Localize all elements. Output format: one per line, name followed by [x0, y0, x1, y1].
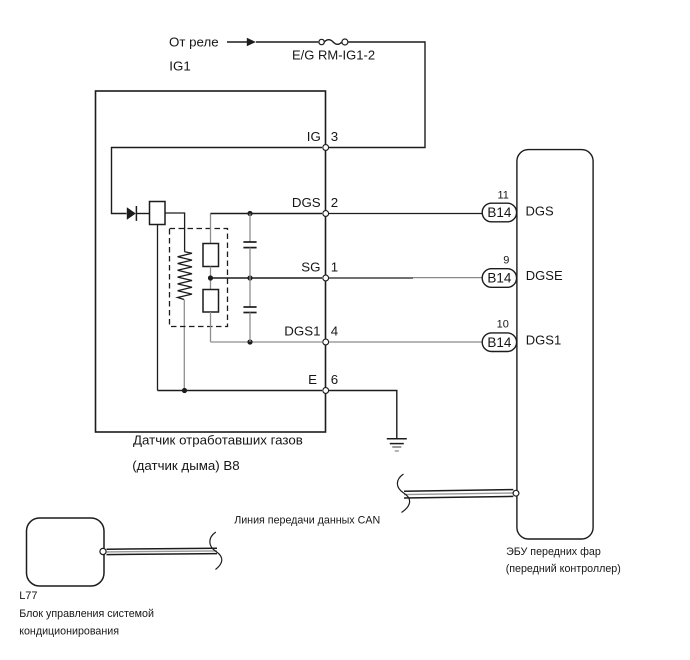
resistor R2 (box) [203, 290, 219, 313]
junction dot [182, 388, 187, 393]
resistor (zigzag) [178, 252, 192, 300]
svg-text:B14: B14 [487, 205, 512, 220]
wire fuse to IG pin [329, 42, 425, 148]
svg-text:Линия передачи данных CAN: Линия передачи данных CAN [234, 514, 380, 526]
ground [387, 439, 407, 451]
svg-text:(передний контроллер): (передний контроллер) [506, 563, 621, 575]
pin SG [323, 275, 329, 281]
capacitor C1 [243, 242, 256, 248]
junction dot DGS/cap [247, 211, 252, 216]
pin DGS [323, 211, 329, 217]
sensor box B8 [96, 91, 326, 432]
svg-text:кондиционирования: кондиционирования [19, 626, 119, 638]
arrow from relay [227, 38, 256, 47]
wire diode to component [137, 213, 150, 215]
svg-text:ЭБУ передних фар: ЭБУ передних фар [506, 546, 601, 558]
svg-text:3: 3 [331, 129, 338, 144]
pin DGS1 [323, 339, 329, 345]
wire SG to C2 [249, 278, 251, 307]
wire SG pin to B14 [329, 277, 413, 279]
svg-text:2: 2 [331, 195, 338, 210]
svg-text:L77: L77 [19, 590, 37, 602]
break symbol (CAN right) [397, 474, 409, 513]
svg-text:IG1: IG1 [169, 59, 190, 74]
wire DGS to R1 [210, 214, 212, 244]
ECU box [517, 150, 593, 539]
wire component bottom to E [157, 225, 159, 391]
wire DGS to C1 [249, 214, 251, 242]
wire C2 to DGS1 [249, 313, 251, 343]
svg-text:DGS1: DGS1 [284, 324, 320, 339]
svg-text:От реле: От реле [169, 35, 219, 50]
svg-text:IG: IG [307, 129, 321, 144]
CAN bus cable to ECU [404, 490, 519, 498]
wire R1 to R2 [210, 267, 212, 290]
svg-text:DGS: DGS [526, 204, 555, 219]
svg-text:(датчик дыма) В8: (датчик дыма) В8 [132, 458, 240, 473]
wire E row [158, 390, 323, 392]
pin E [323, 388, 329, 394]
L77 connector circle [100, 548, 106, 554]
svg-text:10: 10 [497, 319, 509, 331]
svg-text:1: 1 [331, 260, 338, 275]
wire DGS1 row internal [211, 341, 323, 343]
svg-text:Блок управления системой: Блок управления системой [19, 608, 154, 620]
svg-text:4: 4 [331, 324, 338, 339]
pin IG [323, 145, 329, 151]
junction dot SG [208, 275, 213, 280]
CAN bus cable from L77 [107, 548, 218, 554]
wire DGS1 pin to B14 [329, 341, 483, 343]
svg-text:E: E [308, 372, 317, 387]
svg-text:11: 11 [497, 189, 508, 201]
wire DGS row internal [211, 213, 323, 215]
svg-text:DGS1: DGS1 [526, 332, 561, 347]
wire SG row internal [211, 277, 323, 279]
junction dot SG/cap [247, 275, 252, 280]
svg-text:DGS: DGS [292, 195, 321, 210]
wire R2 down to DGS1 row [210, 312, 212, 342]
wire component to resistor branch [165, 213, 185, 252]
svg-text:B14: B14 [487, 271, 512, 286]
L77 box (A/C amplifier) [27, 518, 105, 586]
svg-text:9: 9 [503, 254, 509, 266]
capacitor C2 [243, 307, 256, 313]
svg-text:6: 6 [331, 372, 338, 387]
svg-text:DGSE: DGSE [526, 268, 563, 283]
wire DGS pin to B14 [329, 213, 483, 215]
junction dot DGS1/cap [247, 339, 252, 344]
fuse E/G RM-IG1-2 [319, 39, 348, 45]
wire E to ground [329, 391, 397, 439]
svg-text:SG: SG [301, 260, 320, 275]
svg-text:E/G RM-IG1-2: E/G RM-IG1-2 [292, 48, 375, 63]
break symbol (L77 cable) [210, 532, 222, 570]
diode D [127, 206, 137, 221]
wire arrow to fuse [256, 41, 318, 43]
svg-text:B14: B14 [487, 335, 512, 350]
wire IG internal [112, 148, 323, 214]
wire C1 to SG [249, 248, 251, 278]
svg-text:Датчик отработавших газов: Датчик отработавших газов [133, 432, 303, 447]
dashed element box [170, 229, 228, 327]
component box (regulator) [150, 202, 166, 225]
resistor R1 (box) [203, 244, 219, 267]
wire resistor to E [183, 300, 185, 391]
